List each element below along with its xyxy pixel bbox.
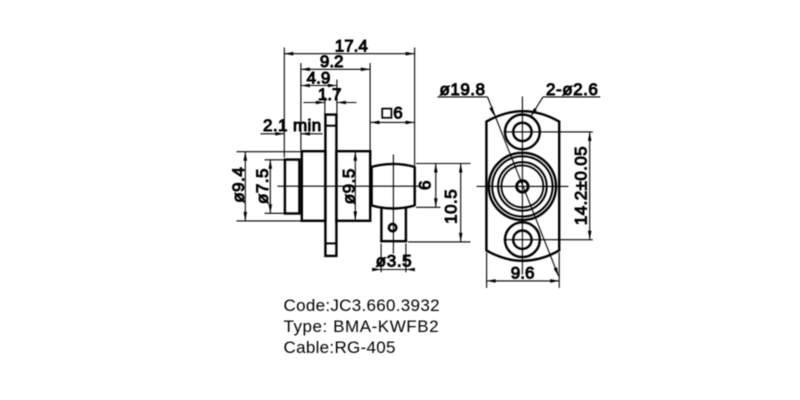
extension line x=414.6 (17.4 right / square6 right) xyxy=(414,48,416,167)
side view: square nut crowned bottom edge xyxy=(372,206,415,209)
label Ø19.8 diagonal leader across flange xyxy=(488,97,559,276)
side view: mating sleeve cylinder (Ø7.5) xyxy=(285,160,300,214)
svg-text:6: 6 xyxy=(393,104,402,123)
svg-text:Cable:RG-405: Cable:RG-405 xyxy=(284,338,396,357)
dimension 14.2 line xyxy=(589,132,591,240)
dimension Ø9.5 line xyxy=(354,152,356,221)
svg-text:9.6: 9.6 xyxy=(511,264,535,283)
label Ø19.8 arrowheads xyxy=(489,107,558,276)
extension lines 9.6 xyxy=(487,253,560,288)
extension line bottom of nut (6) xyxy=(416,206,441,208)
dimension Ø9.5 arrows xyxy=(354,152,358,221)
svg-text:14.2±0.05: 14.2±0.05 xyxy=(572,146,591,225)
side view: body section right of flange (Ø9.5) xyxy=(336,151,370,221)
front view: ring r21 xyxy=(501,165,543,207)
extension line x=370.1 (9.2 right / square6 left) xyxy=(369,63,371,166)
label 2-Ø2.6 arrowhead xyxy=(531,108,537,117)
dimension 4.9 arrows xyxy=(301,84,337,88)
dimension 2.1 min lines (arrows outside) xyxy=(261,133,323,135)
front view horizontal center line xyxy=(477,185,569,187)
svg-text:2-ø2.6: 2-ø2.6 xyxy=(546,80,598,99)
extension lines Ø3.5 xyxy=(381,244,406,273)
svg-text:ø9.5: ø9.5 xyxy=(340,168,359,204)
dimension 1.7 lines (arrows outside) xyxy=(304,102,357,104)
side view: square nut section (6x6) left edge xyxy=(370,166,372,206)
square-6 symbol box xyxy=(382,109,391,118)
front view: ring r30.2 xyxy=(492,156,552,216)
svg-text:ø7.5: ø7.5 xyxy=(253,168,272,204)
extension line x=324.9 (1.7 left) xyxy=(324,97,326,114)
extension lines for Ø7.5 xyxy=(265,160,286,214)
dimension 4.9 line xyxy=(301,85,337,87)
front view: top mounting hole counterbore xyxy=(505,114,540,149)
side view: flange plate (1.7 thick) xyxy=(325,115,336,256)
front view: bottom mounting hole counterbore xyxy=(505,222,540,257)
label Ø19.8 underline xyxy=(438,96,488,98)
dimension 14.2 arrows xyxy=(588,132,592,240)
svg-text:Type: BMA-KWFB2: Type: BMA-KWFB2 xyxy=(284,317,440,336)
dimension 17.4 line xyxy=(284,53,414,55)
dimension 1.7 arrows xyxy=(316,101,346,105)
front view: outer ring r33.6 (body silhouette) xyxy=(489,153,556,220)
svg-text:Code:JC3.660.3932: Code:JC3.660.3932 xyxy=(284,296,440,315)
top hole center line / 14.2 top extension xyxy=(504,131,593,133)
dimension Ø3.5 line (arrows outside) xyxy=(374,269,413,271)
svg-text:1.7: 1.7 xyxy=(318,85,342,104)
extension line x=336.9 (4.9 / 1.7 right) xyxy=(336,80,338,114)
svg-text:ø19.8: ø19.8 xyxy=(440,80,486,99)
side view: square nut crowned top edge xyxy=(372,164,415,167)
dimension 6 arrows xyxy=(434,164,438,208)
dimension 9.2 arrows xyxy=(301,68,370,72)
dimension Ø9.4 arrows xyxy=(244,152,248,221)
front view: bottom mounting hole (Ø2.6) xyxy=(513,231,531,249)
side view: flange bottom fillet line xyxy=(325,242,336,244)
dimension 6 line xyxy=(435,164,437,208)
extension line top (6 / 10.5) xyxy=(416,163,471,165)
dimension Ø7.5 arrows xyxy=(269,160,273,214)
front view: ring r24.3 xyxy=(498,162,547,211)
dimension square6 line xyxy=(370,121,414,123)
dimension 9.2 line xyxy=(301,68,370,70)
dimension 9.6 arrows xyxy=(487,279,560,283)
dimension 2.1 min arrows xyxy=(275,132,310,136)
dimension 10.5 line xyxy=(460,164,462,242)
dimension Ø3.5 arrows xyxy=(372,268,415,272)
side view: flange top fillet line xyxy=(325,125,336,127)
side view: body section left of flange (Ø9.4) xyxy=(302,151,326,221)
label 2-Ø2.6 underline xyxy=(543,96,600,98)
extension line x=284.3 (17.4 left / 2.1min left) xyxy=(283,48,285,158)
dimension Ø9.4 line xyxy=(244,152,246,221)
dimension square6 arrows xyxy=(370,121,414,125)
bottom hole center line / 14.2 bottom extension xyxy=(504,239,593,241)
side view: solder hole in cable tube xyxy=(389,224,396,231)
extension lines for Ø9.4 xyxy=(237,152,302,221)
front view: top mounting hole (Ø2.6) xyxy=(513,123,531,141)
dimension 9.6 line xyxy=(487,280,560,282)
svg-text:10.5: 10.5 xyxy=(442,189,461,224)
svg-text:6: 6 xyxy=(416,181,435,190)
svg-text:2.1 min: 2.1 min xyxy=(263,116,322,135)
front view: flange outline with arched top and bottom xyxy=(486,111,559,261)
side view: square nut section right edge xyxy=(414,166,416,206)
label 2-Ø2.6 leader to top hole xyxy=(531,97,543,117)
front view vertical center line xyxy=(521,97,523,275)
side view horizontal center line xyxy=(278,185,420,187)
extension line bottom of tube (10.5) xyxy=(408,241,471,243)
side view: cable tube (Ø3.5) xyxy=(380,208,407,241)
front view: center contact circle xyxy=(517,181,529,193)
dimension Ø7.5 line xyxy=(269,160,271,214)
dimension 17.4 arrows xyxy=(284,52,414,56)
side view nut/tube vertical center line xyxy=(392,155,394,254)
dimension 10.5 arrows xyxy=(459,164,463,242)
svg-text:ø9.4: ø9.4 xyxy=(229,167,248,203)
extension line x=300.9 (9.2 / 4.9 left / 2.1min right) xyxy=(300,63,302,150)
svg-text:ø3.5: ø3.5 xyxy=(376,252,412,271)
